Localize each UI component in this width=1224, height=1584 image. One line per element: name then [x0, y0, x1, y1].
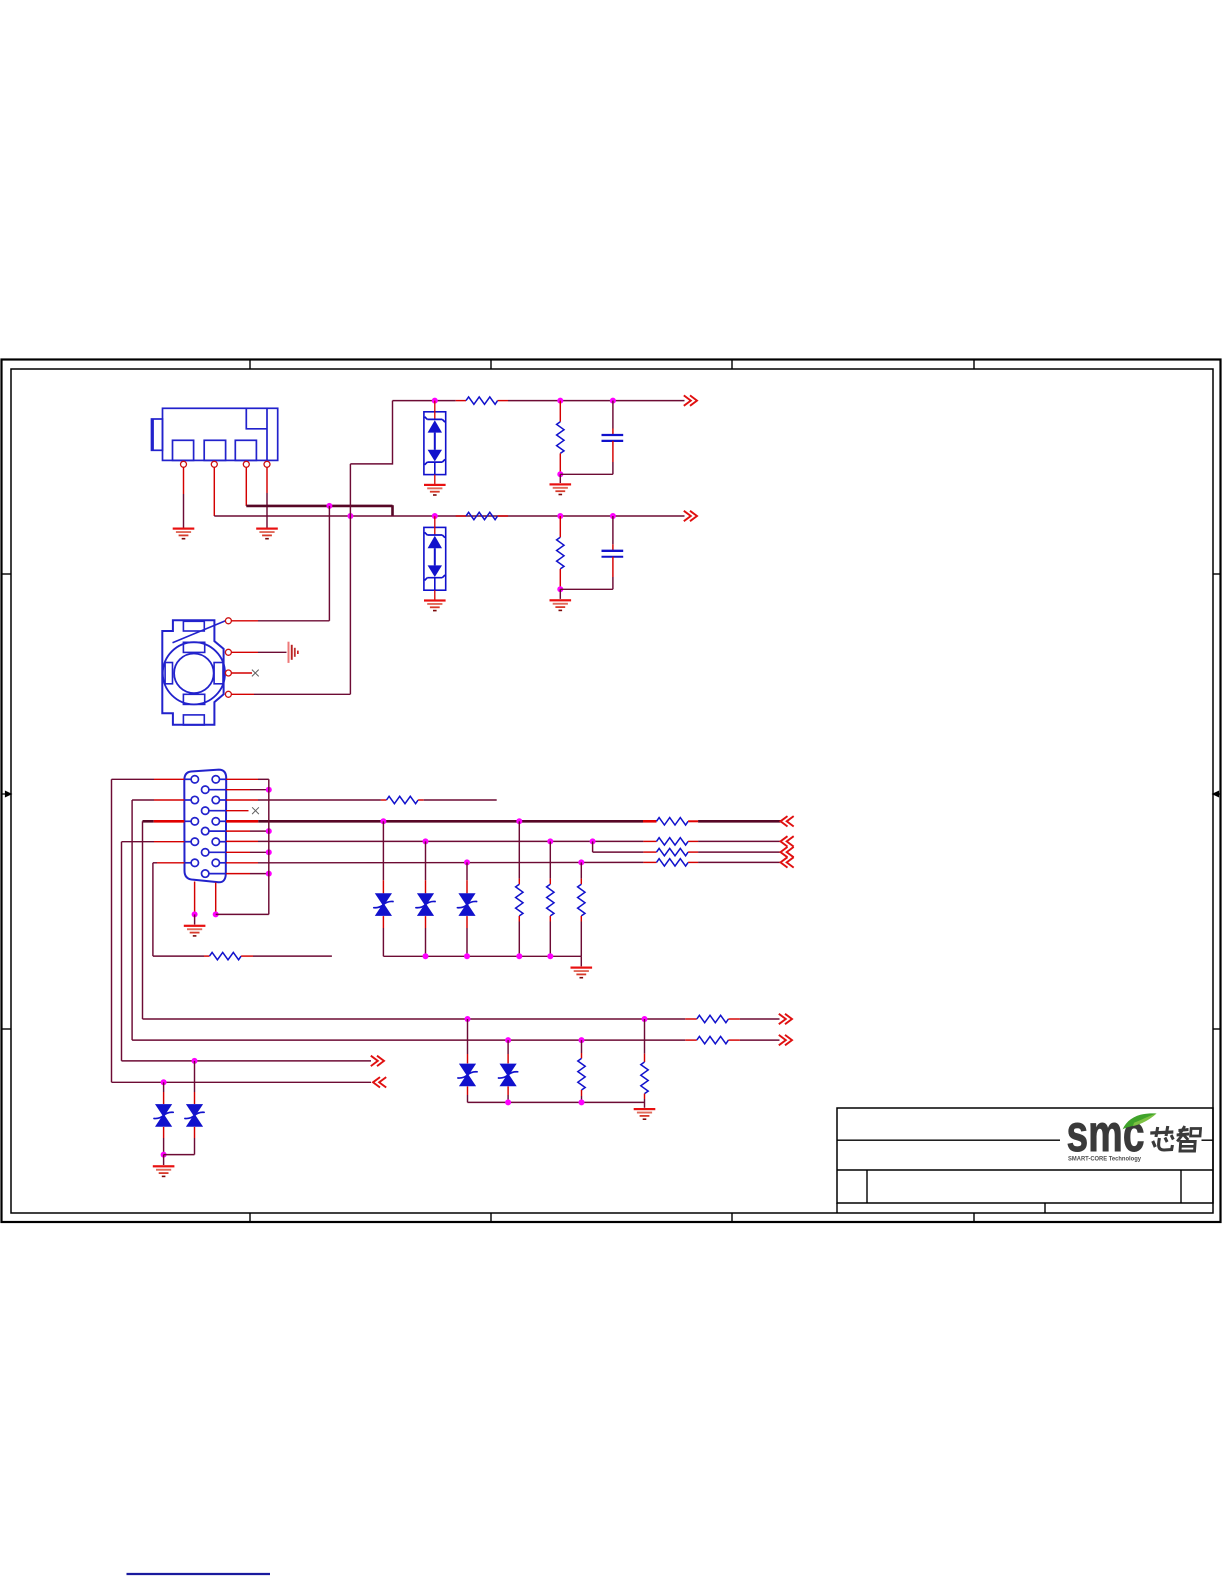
svg-text:SMART-CORE Technology: SMART-CORE Technology	[1068, 1156, 1142, 1163]
svg-text:smc: smc	[1067, 1105, 1145, 1163]
